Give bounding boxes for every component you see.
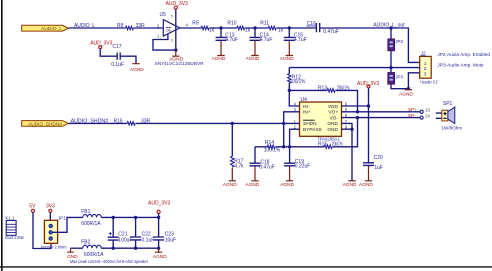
speaker SP1 [436,101,463,130]
svg-text:Max peak current ~400mA for 8-: Max peak current ~400mA for 8-ohm speake… [70,259,148,264]
resistor R8 [117,23,145,30]
wire VDD down to C20 [368,106,370,163]
capacitor C23 [153,217,176,248]
svg-text:600R/1A: 600R/1A [81,221,101,227]
svg-text:R15: R15 [318,141,327,147]
svg-text:JP3: JP3 [395,75,403,80]
wire IN- to pin4 [289,90,299,106]
wire SHDN to R16 [68,122,127,124]
svg-text:AGND: AGND [399,91,413,97]
wire OE loop [153,35,176,51]
svg-text:J2: J2 [421,51,426,56]
power 3V3 [46,203,55,220]
svg-text:AGND: AGND [343,182,357,188]
capacitor C15 [284,28,307,43]
capacitor C22 [130,217,154,248]
ground AGND (C15) [280,41,294,62]
ground AGND (bottom rail) [153,248,167,260]
wire R8 to U5 [134,27,164,29]
svg-text:Jumper 2.0mm: Jumper 2.0mm [40,245,67,250]
capacitor C21 [108,217,133,248]
jumper JP3 [388,68,409,89]
svg-text:24: 24 [425,113,430,118]
svg-text:5V: 5V [29,203,36,209]
svg-text:AUDIO_L: AUDIO_L [41,26,62,31]
svg-text:R16: R16 [114,118,123,124]
svg-text:U5: U5 [160,12,167,18]
svg-text:1uF: 1uF [374,165,383,171]
port AUDIO_L [22,25,69,31]
svg-text:AGND: AGND [280,182,294,188]
ferrite bead FB2 [81,240,104,259]
svg-text:AUD_3V3: AUD_3V3 [148,200,170,206]
ground AGND (R17) [223,168,237,188]
wire VO- SP- [342,113,431,119]
svg-text:600R/1A: 600R/1A [84,252,104,258]
capacitor C17 [111,44,124,68]
svg-text:AGND: AGND [169,57,183,63]
svg-text:1: 1 [424,61,427,67]
svg-text:R8: R8 [117,23,124,29]
svg-text:JP2-Audio Amp. Enabled: JP2-Audio Amp. Enabled [437,52,490,57]
wire pins7,9 GND [342,123,354,180]
svg-text:AGND: AGND [212,56,226,62]
svg-text:AGND: AGND [280,56,294,62]
resistor R9 [192,20,214,33]
wire AUDIO_L to R8 [68,27,125,29]
svg-text:C17: C17 [112,44,121,50]
ground AGND (J2/JP3) [399,87,413,97]
svg-text:AUDIO_SHDN#: AUDIO_SHDN# [71,118,109,124]
svg-text:23: 23 [425,108,430,113]
capacitor C19 [284,159,310,170]
wire VO+ SP+ [342,107,431,113]
wire pin3 IN+ [284,112,300,147]
ground GND (FB2 left) [67,248,83,260]
ground AGND (C13) [212,41,226,62]
svg-text:AUDIO_SHDN#: AUDIO_SHDN# [28,121,63,126]
svg-text:R10: R10 [227,20,236,26]
svg-text:4.7k: 4.7k [234,164,244,170]
wire JP1 pin2 to FB1 [53,217,83,232]
svg-text:AGND: AGND [246,56,260,62]
wire C16 to corner, node JP2 [320,28,420,62]
svg-text:SP-: SP- [408,113,416,118]
resistor R14 [255,140,290,154]
header J2 [408,51,439,89]
svg-text:100/1%: 100/1% [264,148,281,154]
svg-text:0.47uF: 0.47uF [259,164,275,170]
capacitor C14 [250,28,273,43]
wire bottom rail [101,247,158,249]
ground AGND (C19) [280,166,294,188]
svg-text:0.47uF: 0.47uF [323,29,339,35]
resistor R16 [114,118,151,125]
svg-text:0.1uF: 0.1uF [111,62,124,68]
svg-text:GND: GND [327,121,338,127]
ground AGND (C14) [246,41,260,62]
power AUD_3V3 (bottom) [148,200,170,219]
svg-text:SHDN: SHDN [303,121,317,127]
svg-text:AGND: AGND [153,254,167,260]
svg-text:R11: R11 [260,20,269,26]
svg-text:AUDIO_L_out: AUDIO_L_out [373,23,405,29]
ground AGND (U4 pins7,9) [343,181,357,188]
svg-text:IN-: IN- [303,104,310,110]
svg-text:JP2: JP2 [395,39,403,44]
resistor R13 [289,86,359,114]
wire pin2 BYPASS to C19 [290,129,300,163]
svg-text:C20: C20 [374,155,383,161]
svg-text:Shunt 2.0mm: Shunt 2.0mm [5,235,25,240]
power AUD_3V3 (U4) [357,81,379,106]
svg-text:OE: OE [166,29,172,33]
connector X1.1 [5,216,25,240]
jumper JP2 [388,28,404,68]
wire pin6 VDD [342,105,369,107]
capacitor C13 [216,28,239,43]
resistor R11 [260,20,283,33]
ground AGND (C17) [130,63,144,73]
svg-text:10uF: 10uF [165,238,176,244]
svg-text:R13: R13 [318,86,327,92]
power AUD_3V3 (C17) [90,41,117,57]
svg-text:VDD: VDD [328,104,339,110]
capacitor C20 [363,155,383,171]
svg-text:X1.1: X1.1 [5,216,15,221]
svg-text:GND: GND [327,127,338,133]
ground AGND (C20) [359,166,373,188]
IC U4 TPA6205A1 [294,97,348,141]
svg-text:3: 3 [424,71,427,77]
svg-text:100/1%: 100/1% [290,79,306,85]
svg-text:4.7uF: 4.7uF [260,37,273,43]
svg-text:3V3: 3V3 [46,203,55,209]
svg-text:JP3-Audio Amp. Mute: JP3-Audio Amp. Mute [437,63,484,68]
svg-text:R14: R14 [265,140,274,146]
svg-text:JP1: JP1 [58,216,66,221]
wire R9 to R10, node C13 [209,27,237,29]
svg-text:U4: U4 [301,97,308,103]
wire U5 out to R9 [180,27,201,29]
svg-text:R9: R9 [192,20,199,26]
svg-text:AGND: AGND [359,182,373,188]
svg-text:IN+: IN+ [303,110,311,116]
svg-text:100uF: 100uF [118,238,132,244]
svg-text:AUDIO_L: AUDIO_L [74,23,95,29]
svg-text:AUD_3V3: AUD_3V3 [357,81,379,87]
wire R11 to C16, node C15 [277,27,317,29]
svg-text:Header 0.1": Header 0.1" [420,80,439,85]
svg-text:VO-: VO- [329,115,338,121]
svg-text:AGND: AGND [223,182,237,188]
wire R16 to pin1 SHDN [135,122,299,124]
resistor R15 [290,116,360,149]
node IN- junction [288,89,291,92]
svg-text:1W/8Ohm: 1W/8Ohm [442,126,463,131]
port AUDIO_SHDN# [22,121,69,127]
wire C17 to AGND [120,56,136,63]
svg-text:5: 5 [171,15,173,19]
svg-text:BYPASS: BYPASS [303,127,322,133]
power 5V [29,203,51,248]
wire J2 pin2 to R12 [289,67,419,69]
svg-text:3: 3 [171,39,173,43]
svg-text:2: 2 [424,66,427,72]
svg-text:VO+: VO+ [328,110,338,116]
power AUD_3V3 (U5) [166,1,188,19]
capacitor C18 [250,147,275,171]
resistor R17 [231,123,245,169]
ferrite bead FB1 [81,209,101,227]
op-amp buffer U5 SN74LVC1G125DBVR [153,12,204,66]
svg-text:SP+: SP+ [408,107,417,112]
svg-text:0.22uF: 0.22uF [295,164,311,170]
svg-text:0.1uF: 0.1uF [142,238,155,244]
svg-text:AGND: AGND [130,67,144,73]
capacitor C16 [307,21,339,35]
ground AGND (C18) [246,166,260,188]
wire R10 to R11, node C14 [245,27,268,29]
resistor R10 [227,20,250,33]
resistor R12 [288,68,306,91]
svg-text:4.7uF: 4.7uF [294,37,307,43]
svg-text:AGND: AGND [246,182,260,188]
svg-text:SP1: SP1 [443,101,453,107]
svg-text:4.7uF: 4.7uF [225,37,238,43]
wire top rail [101,216,158,218]
header JP1 [40,216,67,250]
ground AGND (U5) [169,50,183,63]
